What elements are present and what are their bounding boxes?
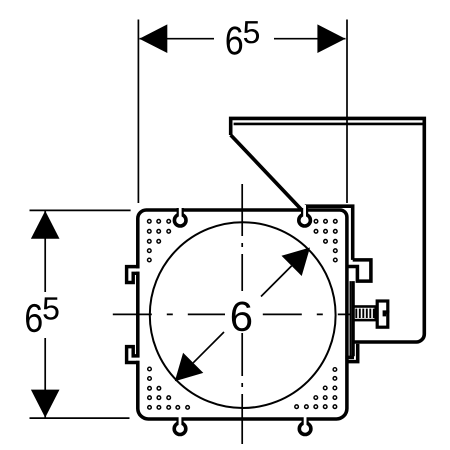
vertical centerline: [241, 184, 243, 444]
top dimension line: [140, 38, 346, 40]
top dimension extension line left: [137, 20, 139, 204]
left dimension extension line top: [30, 209, 131, 211]
lug top-left: [174, 205, 186, 226]
flange cap: [345, 356, 354, 360]
left wall slit bottom: [136, 358, 141, 361]
left dimension line: [44, 211, 46, 418]
screw shaft: [354, 307, 376, 321]
right middle wall below tab: [350, 281, 352, 356]
left dimension extension line bottom: [30, 417, 130, 419]
screw threads: [355, 309, 357, 318]
left wall slit top: [136, 268, 141, 271]
left clip bottom: [127, 347, 140, 363]
halo center text: [225, 291, 260, 333]
main circle: [150, 222, 336, 408]
right flange plate: [352, 281, 355, 356]
top dimension text 6^5: [227, 26, 243, 54]
left dim arrow top: [31, 211, 60, 239]
diagonal dimension line lower segment: [193, 332, 224, 363]
left dim arrow bottom: [31, 390, 60, 418]
horizontal centerline: [113, 313, 351, 315]
chute slanted edge: [231, 135, 305, 213]
left clip top: [127, 267, 140, 283]
halo left text: [22, 292, 64, 338]
diagonal dimension line upper segment: [261, 266, 292, 297]
lug bottom-right: [299, 416, 311, 434]
diagonal arrowhead upper-right: [282, 248, 311, 277]
screw slot tab: [383, 310, 390, 316]
chute inner fold line: [234, 123, 423, 126]
chute (cover plate funnel, top right): [231, 118, 425, 342]
dot pattern top-left: [148, 220, 152, 224]
top dim arrow right: [317, 24, 345, 53]
body outline (flush-mounted box, rounded square): [138, 210, 347, 419]
diagonal arrowhead lower-left: [175, 353, 204, 382]
left dimension text 6^5: [26, 304, 42, 332]
top dimension extension line right: [346, 20, 348, 204]
lug top-right: [299, 205, 311, 226]
dot pattern top-right: [334, 220, 338, 224]
top dim arrow left: [139, 24, 167, 53]
right lower step: [346, 344, 358, 362]
dot pattern bottom-left: [148, 367, 152, 371]
lug bottom-left: [174, 416, 186, 434]
halo top text: [214, 20, 274, 56]
center dimension text 6: [232, 301, 251, 331]
screw head: [377, 301, 388, 327]
right outer wall segment: [305, 206, 353, 260]
right tab: [346, 260, 371, 281]
dot pattern bottom-right: [333, 368, 337, 372]
